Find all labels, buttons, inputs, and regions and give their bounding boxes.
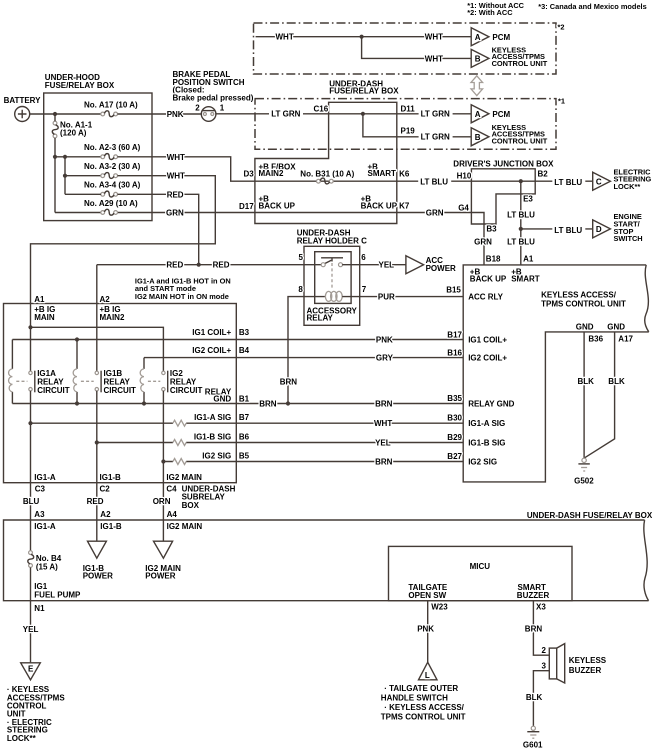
svg-text:IG2 COIL+: IG2 COIL+ xyxy=(192,346,231,355)
wire IG1-A switch output to C3/A3 xyxy=(30,391,32,552)
resistor B7 xyxy=(173,420,186,426)
svg-text:BRN: BRN xyxy=(280,377,298,386)
svg-text:B6: B6 xyxy=(239,433,250,442)
IG1A relay switch xyxy=(34,371,36,393)
wire IG2 COIL+ B4 row xyxy=(144,357,463,359)
svg-text:FUSE/RELAY BOX: FUSE/RELAY BOX xyxy=(45,81,115,90)
accessory relay link (dashed) xyxy=(331,263,333,290)
svg-text:MAIN2: MAIN2 xyxy=(100,313,125,322)
svg-text:A3: A3 xyxy=(34,510,45,519)
svg-text:BLK: BLK xyxy=(608,377,625,386)
svg-text:MAIN2: MAIN2 xyxy=(259,169,284,178)
svg-text:LT BLU: LT BLU xyxy=(420,177,448,186)
svg-text:RED: RED xyxy=(87,497,104,506)
resistor B6 xyxy=(173,440,186,446)
svg-text:E3: E3 xyxy=(523,194,533,203)
svg-text:TPMS CONTROL UNIT: TPMS CONTROL UNIT xyxy=(541,300,626,309)
connector arrow IG1-B POWER xyxy=(88,541,107,558)
variant link double arrow xyxy=(471,76,483,96)
wire GND A17 BLK xyxy=(585,332,615,458)
svg-text:BUZZER: BUZZER xyxy=(569,666,602,675)
svg-text:LT GRN: LT GRN xyxy=(421,110,450,119)
svg-text:B3: B3 xyxy=(239,328,250,337)
svg-text:B4: B4 xyxy=(239,346,250,355)
svg-text:GRY: GRY xyxy=(376,354,394,363)
svg-text:IG2 SIG: IG2 SIG xyxy=(468,458,497,467)
fuse No. B4 (15 A) vertical xyxy=(28,551,34,568)
svg-text:CIRCUIT: CIRCUIT xyxy=(170,386,203,395)
wire X3 BRN to buzzer pin 2 xyxy=(533,601,549,656)
connector arrow B (KEYLESS ACCESS/TPMS CONTROL UNIT) xyxy=(471,128,489,146)
svg-text:RELAY GND: RELAY GND xyxy=(468,400,514,409)
svg-text:A1: A1 xyxy=(523,255,534,264)
wire G4 GRN down to B18 xyxy=(397,213,484,265)
accessory relay switch xyxy=(321,258,343,262)
svg-text:B7: B7 xyxy=(239,413,250,422)
svg-text:2: 2 xyxy=(542,646,547,655)
wire to fuse A3-2 xyxy=(65,175,101,177)
svg-text:OPEN SW: OPEN SW xyxy=(408,591,446,600)
svg-text:POWER: POWER xyxy=(83,572,113,581)
svg-text:D17: D17 xyxy=(239,202,254,211)
accessory relay coil xyxy=(325,291,331,301)
svg-text:No. A17 (10 A): No. A17 (10 A) xyxy=(84,100,138,109)
wire buzzer pin 3 BLK to G601 xyxy=(533,671,549,727)
label LT BLU xyxy=(418,178,451,186)
svg-text:P19: P19 xyxy=(401,126,416,135)
junction battery feed xyxy=(53,112,57,116)
junction BRN/B1 xyxy=(286,401,290,405)
svg-text:WHT: WHT xyxy=(425,54,443,63)
svg-text:No. A3-2 (30 A): No. A3-2 (30 A) xyxy=(84,162,141,171)
svg-text:5: 5 xyxy=(299,253,304,262)
svg-text:8: 8 xyxy=(298,285,303,294)
svg-text:SMART: SMART xyxy=(368,169,397,178)
wire IG1 FUEL PUMP to N1 xyxy=(30,568,32,663)
svg-text:POWER: POWER xyxy=(145,572,175,581)
svg-text:RELAY HOLDER C: RELAY HOLDER C xyxy=(297,236,367,245)
svg-text:BRN: BRN xyxy=(375,400,393,409)
connector arrow ACC POWER xyxy=(406,256,424,274)
connector arrow D (ENGINE START/STOP SWITCH) xyxy=(593,220,611,238)
svg-text:RELAY: RELAY xyxy=(307,313,334,322)
svg-text:Brake pedal pressed): Brake pedal pressed) xyxy=(173,94,254,103)
svg-text:LT BLU: LT BLU xyxy=(554,226,582,235)
svg-text:B36: B36 xyxy=(588,334,603,343)
junction D branch xyxy=(519,227,523,231)
svg-text:1: 1 xyxy=(220,103,225,112)
label LT BLU xyxy=(552,178,585,186)
svg-text:MICU: MICU xyxy=(470,562,491,571)
svg-text:7: 7 xyxy=(362,285,367,294)
svg-text:RED: RED xyxy=(167,190,184,199)
svg-text:IG1-B SIG: IG1-B SIG xyxy=(194,433,231,442)
svg-text:LOCK**: LOCK** xyxy=(614,182,641,191)
svg-text:LT GRN: LT GRN xyxy=(421,133,450,142)
wire W23 PNK to tailgate switch xyxy=(427,601,429,663)
svg-text:IG1 COIL+: IG1 COIL+ xyxy=(468,336,507,345)
connector arrow B (KEYLESS ACCESS/TPMS CONTROL UNIT) xyxy=(471,49,489,67)
wire A17 to PNK xyxy=(118,113,202,115)
svg-text:BLK: BLK xyxy=(526,693,543,702)
box: With-ACC variant (dash-dot) xyxy=(254,23,557,74)
svg-text:H10: H10 xyxy=(457,171,472,180)
svg-text:IG1-B: IG1-B xyxy=(100,473,122,482)
svg-text:WHT: WHT xyxy=(167,153,185,162)
wire battery to fuse A17 xyxy=(30,113,101,115)
svg-text:D3: D3 xyxy=(243,169,254,178)
ground G601 xyxy=(531,726,535,730)
wire A2 down xyxy=(96,265,98,372)
wire IG2 switch output to C4/A4 xyxy=(162,391,164,541)
svg-text:G502: G502 xyxy=(574,477,594,486)
svg-text:POWER: POWER xyxy=(426,264,456,273)
svg-text:BOX: BOX xyxy=(182,501,200,510)
svg-text:A17: A17 xyxy=(618,334,633,343)
junction WHT xyxy=(360,35,364,39)
box: driver's junction box xyxy=(471,169,535,224)
svg-text:(15 A): (15 A) xyxy=(36,562,58,571)
svg-text:· TAILGATE OUTER: · TAILGATE OUTER xyxy=(384,684,458,693)
wire LT BLU to D xyxy=(521,228,593,230)
svg-text:CIRCUIT: CIRCUIT xyxy=(104,386,137,395)
label LT GRN xyxy=(269,110,303,118)
svg-text:BACK UP: BACK UP xyxy=(259,202,296,211)
svg-text:B3: B3 xyxy=(486,224,497,233)
svg-text:A: A xyxy=(475,33,481,42)
svg-text:WHT: WHT xyxy=(374,419,392,428)
svg-text:A2: A2 xyxy=(100,510,111,519)
svg-text:A1: A1 xyxy=(34,295,45,304)
svg-text:LT BLU: LT BLU xyxy=(507,211,535,220)
box: keyless access/TPMS control unit xyxy=(463,265,649,482)
svg-text:IG1-B SIG: IG1-B SIG xyxy=(468,439,505,448)
connector arrow A (PCM) xyxy=(471,105,489,123)
svg-text:B15: B15 xyxy=(446,286,461,295)
svg-text:BRN: BRN xyxy=(525,624,543,633)
IG2 relay coil xyxy=(143,358,145,404)
junction LT GRN xyxy=(361,112,365,116)
svg-text:D11: D11 xyxy=(401,104,416,113)
svg-text:SWITCH: SWITCH xyxy=(614,234,643,243)
fuse No. A1-1 (120 A) vertical xyxy=(52,121,58,138)
svg-text:BUZZER: BUZZER xyxy=(517,591,550,600)
wire pin 8 BRN to relay gnd xyxy=(288,297,325,404)
svg-text:B2: B2 xyxy=(538,170,549,179)
svg-text:*2: *2 xyxy=(558,23,565,32)
box: under-dash fuse/relay box (bottom, torn right edge) xyxy=(4,520,649,601)
IG1B relay coil xyxy=(76,340,78,404)
svg-text:MAIN: MAIN xyxy=(34,313,55,322)
svg-text:IG1 COIL+: IG1 COIL+ xyxy=(192,328,231,337)
svg-text:G4: G4 xyxy=(458,204,469,213)
svg-text:IG2 MAIN: IG2 MAIN xyxy=(166,473,202,482)
junction coils to B1 xyxy=(75,401,79,405)
box: MICU xyxy=(389,546,573,600)
svg-text:YEL: YEL xyxy=(23,625,39,634)
svg-text:IG1-A SIG: IG1-A SIG xyxy=(468,419,505,428)
svg-text:CONTROL UNIT: CONTROL UNIT xyxy=(492,136,548,145)
IG1B relay switch xyxy=(100,371,102,393)
svg-text:GND: GND xyxy=(607,322,625,331)
svg-text:BATTERY: BATTERY xyxy=(4,96,42,105)
svg-text:W23: W23 xyxy=(431,603,448,612)
wire RED from A3-4 to pin 5 and A2 xyxy=(97,264,322,266)
svg-text:BRN: BRN xyxy=(259,400,277,409)
svg-text:WHT: WHT xyxy=(425,33,443,42)
connector arrow IG2 MAIN POWER xyxy=(154,541,173,558)
svg-text:No. A2-3 (60 A): No. A2-3 (60 A) xyxy=(84,143,141,152)
svg-text:G601: G601 xyxy=(523,741,543,750)
svg-text:YEL: YEL xyxy=(375,439,391,448)
label LT BLU xyxy=(505,238,538,246)
svg-text:LOCK**: LOCK** xyxy=(7,734,37,743)
svg-text:A2: A2 xyxy=(100,295,111,304)
wire A3-2 WHT to A1 (+B IG MAIN) xyxy=(31,176,216,372)
svg-text:N1: N1 xyxy=(34,604,45,613)
svg-text:B16: B16 xyxy=(447,348,462,357)
wire IG1-B switch output to C2/A2 xyxy=(96,391,98,541)
svg-text:B5: B5 xyxy=(239,452,250,461)
junction B7 xyxy=(28,421,32,425)
svg-text:RED: RED xyxy=(166,261,183,270)
svg-text:PNK: PNK xyxy=(167,110,184,119)
box: under-hood fuse/relay box xyxy=(44,93,152,221)
svg-text:B1: B1 xyxy=(239,395,250,404)
svg-text:GRN: GRN xyxy=(426,209,444,218)
svg-text:IG1-B: IG1-B xyxy=(100,522,122,531)
wire A3-4 RED down xyxy=(65,194,199,264)
svg-text:B: B xyxy=(475,133,481,142)
svg-text:B: B xyxy=(475,55,481,64)
box: relay holder C xyxy=(304,246,360,325)
wire A29 GRN to D17 xyxy=(55,212,255,214)
svg-text:IG1-A: IG1-A xyxy=(34,522,56,531)
svg-text:GND: GND xyxy=(576,322,594,331)
svg-text:BACK UP: BACK UP xyxy=(470,275,507,284)
connector arrow L (tailgate) xyxy=(419,662,438,680)
wire pin 6 YEL to ACC POWER xyxy=(342,264,406,266)
svg-text:2: 2 xyxy=(195,103,200,112)
svg-text:GND: GND xyxy=(213,395,231,404)
wire A1 to IG2 relay switch xyxy=(31,327,164,371)
svg-text:C: C xyxy=(596,177,602,186)
svg-text:B29: B29 xyxy=(447,433,462,442)
svg-text:FUSE/RELAY BOX: FUSE/RELAY BOX xyxy=(329,87,399,96)
svg-text:B17: B17 xyxy=(447,330,462,339)
svg-text:BRN: BRN xyxy=(375,458,393,467)
wire RELAY GND B1 row xyxy=(12,403,463,405)
resistor B5 xyxy=(173,459,186,465)
svg-text:*2: With ACC: *2: With ACC xyxy=(467,8,513,17)
label LT BLU xyxy=(505,211,538,219)
svg-text:LT GRN: LT GRN xyxy=(271,110,300,119)
svg-text:BLK: BLK xyxy=(578,377,595,386)
svg-text:GRN: GRN xyxy=(474,237,492,246)
svg-text:C3: C3 xyxy=(35,484,46,493)
svg-text:X3: X3 xyxy=(536,603,546,612)
wire A1-1 to A2-3 junction xyxy=(54,114,56,213)
box: under-dash fuse/relay box (C16/D11 section + D3/D17 annex) xyxy=(255,102,397,223)
wire A3 branch down xyxy=(64,157,66,195)
connector arrow C (ELECTRIC STEERING LOCK) xyxy=(593,172,611,190)
wire A2-3 WHT to D3 xyxy=(118,157,255,181)
svg-text:A: A xyxy=(475,110,481,119)
svg-text:C16: C16 xyxy=(314,104,329,113)
svg-text:YEL: YEL xyxy=(379,261,395,270)
svg-text:BLU: BLU xyxy=(23,497,40,506)
svg-text:RED: RED xyxy=(213,261,230,270)
wire to fuse A2-3 xyxy=(55,156,101,158)
svg-text:(120 A): (120 A) xyxy=(60,128,87,137)
box: Without-ACC variant (dash-dot) xyxy=(255,99,556,150)
svg-text:*3: Canada and Mexico models: *3: Canada and Mexico models xyxy=(538,2,646,11)
junction RED xyxy=(197,263,201,267)
svg-text:IG2 SIG: IG2 SIG xyxy=(202,452,231,461)
label LT GRN xyxy=(419,110,453,118)
svg-text:L: L xyxy=(425,671,430,680)
svg-text:K6: K6 xyxy=(399,169,410,178)
IG1A relay coil xyxy=(11,340,13,404)
connector arrow E xyxy=(21,663,41,680)
svg-text:IG1-A: IG1-A xyxy=(34,473,56,482)
junction E3 xyxy=(519,179,523,183)
box: accessory relay xyxy=(315,252,351,304)
svg-text:C4: C4 xyxy=(166,484,177,493)
svg-text:6: 6 xyxy=(361,253,366,262)
wire IG2 SIG B5 row xyxy=(163,461,463,463)
svg-text:DRIVER'S JUNCTION BOX: DRIVER'S JUNCTION BOX xyxy=(453,160,554,169)
label LT BLU xyxy=(552,226,585,234)
svg-text:B18: B18 xyxy=(486,255,501,264)
svg-text:TPMS CONTROL UNIT: TPMS CONTROL UNIT xyxy=(381,712,466,721)
svg-text:LT BLU: LT BLU xyxy=(554,178,582,187)
svg-text:IG2 COIL+: IG2 COIL+ xyxy=(468,354,507,363)
svg-text:PCM: PCM xyxy=(492,110,510,119)
junction A3 branch xyxy=(63,155,67,159)
wire E3 LT BLU down to A1 xyxy=(520,181,522,265)
svg-text:FUEL PUMP: FUEL PUMP xyxy=(34,590,81,599)
svg-text:D: D xyxy=(596,225,602,234)
svg-text:KEYLESS ACCESS/: KEYLESS ACCESS/ xyxy=(541,290,617,299)
svg-text:IG2 MAIN HOT in ON mode: IG2 MAIN HOT in ON mode xyxy=(135,292,229,301)
label LT GRN xyxy=(419,133,453,141)
svg-text:PUR: PUR xyxy=(378,293,395,302)
junction A1 feed xyxy=(28,325,32,329)
wire GND B36 BLK xyxy=(583,332,585,458)
svg-text:*1: *1 xyxy=(558,97,565,106)
wire IG1-A SIG B7 row xyxy=(31,422,464,424)
svg-text:3: 3 xyxy=(542,661,547,670)
svg-text:B27: B27 xyxy=(447,452,462,461)
wire IG1 COIL+ B3 row xyxy=(12,339,463,341)
svg-text:B30: B30 xyxy=(447,414,462,423)
connector arrow A (PCM) xyxy=(471,28,489,46)
svg-text:LT BLU: LT BLU xyxy=(507,237,535,246)
svg-text:PCM: PCM xyxy=(492,33,510,42)
svg-text:SMART: SMART xyxy=(511,275,540,284)
svg-text:No. A29 (10 A): No. A29 (10 A) xyxy=(84,199,138,208)
junction IG1B coil xyxy=(75,337,79,341)
wire LT GRN to P19 / KEYLESS xyxy=(363,114,471,137)
IG2 relay switch xyxy=(167,371,169,393)
ground G502 xyxy=(582,458,586,462)
box: under-dash sub-relay box xyxy=(4,304,237,483)
svg-text:No. B31 (10 A): No. B31 (10 A) xyxy=(300,169,354,178)
wire WHT to KEYLESS (row B) xyxy=(362,37,472,59)
svg-text:CIRCUIT: CIRCUIT xyxy=(37,386,70,395)
wire D17 to K7 xyxy=(255,212,397,214)
keyless buzzer xyxy=(549,648,556,679)
junction B5 xyxy=(161,459,165,463)
wire D3 to K6 xyxy=(255,180,397,182)
wire LT GRN C16 to D11 to PCM xyxy=(216,113,471,115)
svg-text:· KEYLESS ACCESS/: · KEYLESS ACCESS/ xyxy=(384,703,464,712)
wire WHT to PCM (row A) xyxy=(256,36,472,38)
svg-text:B35: B35 xyxy=(447,394,462,403)
svg-text:ORN: ORN xyxy=(153,497,171,506)
svg-text:WHT: WHT xyxy=(167,172,185,181)
wire K6 LT BLU to H10/B2/C xyxy=(397,180,593,182)
svg-text:IG1-A SIG: IG1-A SIG xyxy=(194,413,231,422)
svg-text:A4: A4 xyxy=(167,510,178,519)
svg-text:UNDER-DASH FUSE/RELAY BOX: UNDER-DASH FUSE/RELAY BOX xyxy=(527,511,653,520)
svg-text:KEYLESS: KEYLESS xyxy=(569,656,607,665)
svg-text:CONTROL UNIT: CONTROL UNIT xyxy=(492,59,548,68)
svg-text:GRN: GRN xyxy=(166,209,184,218)
wire pin 7 PUR to B15 xyxy=(342,296,463,298)
junction B6 xyxy=(95,440,99,444)
svg-text:IG2 MAIN: IG2 MAIN xyxy=(167,522,203,531)
svg-text:ACC RLY: ACC RLY xyxy=(468,292,503,301)
svg-text:E: E xyxy=(28,664,34,673)
svg-text:No. A3-4 (30 A): No. A3-4 (30 A) xyxy=(84,181,141,190)
svg-text:C2: C2 xyxy=(100,484,111,493)
junction A3-2 xyxy=(63,174,67,178)
svg-text:WHT: WHT xyxy=(276,33,294,42)
junction A2-3 xyxy=(53,155,57,159)
wire IG1-B SIG B6 row xyxy=(97,442,463,444)
svg-text:BACK UP: BACK UP xyxy=(361,202,398,211)
svg-text:K7: K7 xyxy=(399,202,410,211)
svg-text:PNK: PNK xyxy=(376,336,393,345)
svg-text:PNK: PNK xyxy=(417,624,434,633)
svg-text:HANDLE SWITCH: HANDLE SWITCH xyxy=(381,693,448,702)
